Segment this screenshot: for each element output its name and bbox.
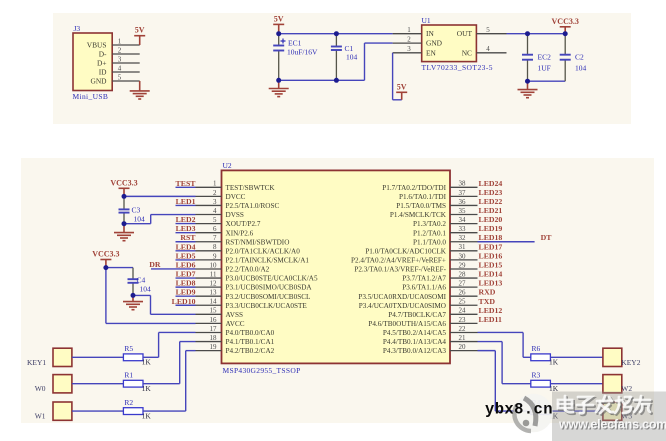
svg-text:P2.4/TA0.2/A4/VREF+/VeREF+: P2.4/TA0.2/A4/VREF+/VeREF+ <box>351 256 446 264</box>
svg-text:MSP430G2955_TSSOP: MSP430G2955_TSSOP <box>223 366 301 375</box>
resistor R3 1K <box>531 370 559 393</box>
svg-text:4: 4 <box>213 207 217 215</box>
svg-text:7: 7 <box>213 234 217 242</box>
junction dots C4 <box>103 265 135 298</box>
svg-text:104: 104 <box>346 53 358 62</box>
wire R4 to W3 <box>550 410 603 412</box>
watermark text shao <box>615 397 633 415</box>
svg-text:DT: DT <box>541 233 553 242</box>
svg-text:RST/NMI/SBWTDIO: RST/NMI/SBWTDIO <box>226 238 290 246</box>
svg-text:C3: C3 <box>132 206 141 215</box>
capacitor EC1 10uF/16V <box>273 34 318 81</box>
junction dots input rails <box>276 31 339 83</box>
svg-text:GND: GND <box>90 77 107 86</box>
svg-text:C4: C4 <box>137 276 146 285</box>
wire U2 pin16 AVCC to VCC3.3 <box>106 268 196 324</box>
svg-text:P1.4/SMCLK/TCK: P1.4/SMCLK/TCK <box>390 211 447 219</box>
svg-text:TXD: TXD <box>479 297 496 306</box>
svg-text:4: 4 <box>486 45 490 53</box>
svg-text:R2: R2 <box>124 398 133 407</box>
svg-text:LED7: LED7 <box>176 270 196 279</box>
net label LED19 <box>479 224 503 233</box>
watermark text zi <box>577 397 595 415</box>
svg-text:33: 33 <box>459 225 467 233</box>
watermark www.elecfans.com <box>558 418 666 433</box>
svg-text:5V: 5V <box>135 26 145 35</box>
U2 pin stubs and numbers <box>196 180 478 351</box>
svg-text:1K: 1K <box>142 384 152 393</box>
svg-text:LED4: LED4 <box>176 242 196 251</box>
svg-text:OUT: OUT <box>457 29 473 38</box>
pad W1 <box>35 402 72 421</box>
ground (C3) <box>114 224 134 241</box>
svg-text:2: 2 <box>118 46 122 54</box>
net label LED3 <box>176 224 196 233</box>
net label LED23 <box>479 188 503 197</box>
svg-text:TEST: TEST <box>176 179 197 188</box>
svg-text:104: 104 <box>134 215 146 224</box>
wire R1 to U2 pin18 <box>143 342 196 384</box>
svg-text:35: 35 <box>459 207 467 215</box>
svg-text:RST: RST <box>180 233 196 242</box>
svg-text:D-: D- <box>99 50 107 59</box>
svg-text:9: 9 <box>213 252 217 260</box>
net label LED20 <box>479 215 503 224</box>
U1 pin stubs <box>393 26 507 53</box>
svg-text:31: 31 <box>459 243 467 251</box>
net label LED4 <box>176 242 196 251</box>
connector J3 Mini_USB <box>73 24 113 101</box>
net label LED17 <box>479 242 503 251</box>
svg-text:10uF/16V: 10uF/16V <box>287 48 318 57</box>
svg-text:4: 4 <box>118 64 122 72</box>
svg-text:AVSS: AVSS <box>226 311 243 319</box>
net label LED5 <box>176 251 196 260</box>
svg-text:34: 34 <box>459 216 467 224</box>
svg-text:EN: EN <box>426 48 437 57</box>
svg-text:C2: C2 <box>575 53 584 62</box>
svg-text:LED21: LED21 <box>479 206 503 215</box>
svg-text:LED10: LED10 <box>172 297 196 306</box>
svg-text:P4.3/TB0.0/A12/CA3: P4.3/TB0.0/A12/CA3 <box>383 347 447 355</box>
svg-text:5V: 5V <box>274 14 284 23</box>
net label LED12 <box>479 306 503 315</box>
net label RST <box>180 233 196 242</box>
svg-text:XIN/P2.6: XIN/P2.6 <box>226 229 254 237</box>
svg-text:6: 6 <box>213 225 217 233</box>
svg-text:3: 3 <box>213 198 217 206</box>
svg-text:NC: NC <box>462 48 472 57</box>
svg-text:27: 27 <box>459 280 467 288</box>
wire R3 to W2 <box>550 383 603 385</box>
wire R6 to KEY2 <box>550 356 603 358</box>
svg-text:P2.1/TAINCLK/SMCLK/A1: P2.1/TAINCLK/SMCLK/A1 <box>226 256 310 264</box>
svg-text:P4.4/TB0.1/A13/CA4: P4.4/TB0.1/A13/CA4 <box>383 338 447 346</box>
svg-text:DVCC: DVCC <box>226 193 246 201</box>
svg-text:104: 104 <box>140 285 152 294</box>
svg-text:KEY1: KEY1 <box>27 358 46 367</box>
watermark text dian <box>558 396 575 414</box>
svg-text:R3: R3 <box>532 370 541 379</box>
svg-text:LED20: LED20 <box>479 215 503 224</box>
svg-text:10: 10 <box>210 261 218 269</box>
svg-text:1K: 1K <box>142 358 152 367</box>
svg-text:P1.7/TA0.2/TDO/TDI: P1.7/TA0.2/TDO/TDI <box>382 184 446 192</box>
svg-text:ybx8.cn: ybx8.cn <box>485 401 553 419</box>
svg-text:24: 24 <box>459 307 467 315</box>
svg-text:21: 21 <box>459 334 467 342</box>
pad KEY2 <box>603 348 641 367</box>
svg-text:13: 13 <box>210 289 218 297</box>
svg-text:5: 5 <box>213 216 217 224</box>
svg-text:1K: 1K <box>549 358 559 367</box>
svg-text:VBUS: VBUS <box>87 41 107 50</box>
resistor R2 1K <box>123 398 151 421</box>
svg-text:D+: D+ <box>97 59 107 68</box>
net label LED11 <box>479 315 502 324</box>
svg-text:LED24: LED24 <box>479 179 503 188</box>
power VCC3.3 (AVCC) <box>92 250 119 268</box>
net label LED2 <box>176 215 196 224</box>
svg-text:P2.2/TA0.0/A2: P2.2/TA0.0/A2 <box>226 266 270 274</box>
wire U1 GND to ground rail <box>365 43 393 80</box>
svg-text:VCC3.3: VCC3.3 <box>552 17 579 26</box>
U2 pin names <box>226 184 447 355</box>
svg-text:IN: IN <box>426 29 434 38</box>
svg-text:P3.5/UCA0RXD/UCA0SOMI: P3.5/UCA0RXD/UCA0SOMI <box>358 293 446 301</box>
wire W0 to R1 <box>72 383 124 385</box>
svg-text:U2: U2 <box>223 161 232 170</box>
svg-text:5V: 5V <box>397 82 407 91</box>
svg-text:LED15: LED15 <box>479 260 503 269</box>
svg-text:P2.5/TA1.0/ROSC: P2.5/TA1.0/ROSC <box>226 202 280 210</box>
wire U2 pin15 AVSS to ground <box>133 295 196 314</box>
power VCC3.3 output <box>552 17 579 34</box>
svg-text:LED2: LED2 <box>176 215 196 224</box>
svg-text:5: 5 <box>118 73 122 81</box>
net label LED8 <box>176 279 196 288</box>
svg-text:P1.5/TA0.0/TMS: P1.5/TA0.0/TMS <box>396 202 446 210</box>
resistor R6 1K <box>531 344 559 367</box>
svg-text:12: 12 <box>210 280 218 288</box>
wire R2 to U2 pin19 <box>143 351 196 411</box>
svg-text:P3.6/TA1.1/A6: P3.6/TA1.1/A6 <box>402 284 446 292</box>
wire R5 to U2 pin17 <box>143 332 196 357</box>
power 5V at J3 pin1 <box>134 26 145 45</box>
svg-text:2: 2 <box>213 189 217 197</box>
svg-text:RXD: RXD <box>479 288 496 297</box>
svg-text:LED11: LED11 <box>479 315 502 324</box>
wire VCC3.3 to U2 pin2 DVCC <box>124 195 196 197</box>
svg-text:20: 20 <box>459 343 467 351</box>
svg-text:5: 5 <box>486 26 490 34</box>
pad KEY1 <box>27 348 72 367</box>
capacitor C2 104 <box>560 34 587 81</box>
svg-text:P3.0/UCB0STE/UCA0CLK/A5: P3.0/UCB0STE/UCA0CLK/A5 <box>226 275 318 283</box>
capacitor EC2 1UF <box>522 34 551 81</box>
svg-text:36: 36 <box>459 198 467 206</box>
net label LED15 <box>479 260 503 269</box>
wire U2 pin22 to R6 <box>478 332 531 357</box>
svg-text:EC1: EC1 <box>288 39 302 48</box>
svg-text:1UF: 1UF <box>538 64 551 73</box>
svg-text:P4.5/TB0.2/A14/CA5: P4.5/TB0.2/A14/CA5 <box>383 329 447 337</box>
ground (output rail) <box>518 81 538 98</box>
svg-text:GND: GND <box>426 39 443 48</box>
net label LED13 <box>479 279 503 288</box>
svg-text:P1.2/TA0.1: P1.2/TA0.1 <box>413 229 446 237</box>
power 5V input rail <box>273 14 284 33</box>
capacitor C3 104 <box>119 196 146 223</box>
capacitor C1 104 <box>331 34 358 81</box>
wire U1 OUT to VCC3.3 <box>507 33 566 35</box>
svg-text:R6: R6 <box>532 344 541 353</box>
capacitor C4 104 <box>106 268 151 296</box>
svg-text:TEST/SBWTCK: TEST/SBWTCK <box>226 184 276 192</box>
pad W0 <box>35 375 72 394</box>
svg-text:14: 14 <box>210 298 218 306</box>
resistor R1 1K <box>123 370 151 393</box>
svg-text:8: 8 <box>213 243 217 251</box>
svg-text:DR: DR <box>149 260 161 269</box>
svg-text:LED3: LED3 <box>176 224 196 233</box>
net label RXD <box>479 288 496 297</box>
svg-text:LED13: LED13 <box>479 279 503 288</box>
watermark text fa <box>596 396 615 415</box>
svg-text:17: 17 <box>210 325 218 333</box>
svg-text:LED19: LED19 <box>479 224 503 233</box>
svg-text:LED5: LED5 <box>176 251 196 260</box>
svg-text:P3.4/UCA0TXD/UCA0SIMO: P3.4/UCA0TXD/UCA0SIMO <box>359 302 446 310</box>
watermark text you <box>634 396 652 414</box>
wire ground rail (input) <box>279 79 365 81</box>
svg-text:P3.1/UCB0SIMO/UCB0SDA: P3.1/UCB0SIMO/UCB0SDA <box>226 284 313 292</box>
svg-text:18: 18 <box>210 334 218 342</box>
svg-text:11: 11 <box>210 270 217 278</box>
svg-text:P4.0/TB0.0/CA0: P4.0/TB0.0/CA0 <box>226 329 275 337</box>
svg-text:LED23: LED23 <box>479 188 503 197</box>
svg-text:2: 2 <box>407 36 411 44</box>
svg-text:P4.6/TB0OUTH/A15/CA6: P4.6/TB0OUTH/A15/CA6 <box>368 320 446 328</box>
watermark ybx8.cn <box>485 401 553 419</box>
net label LED10 <box>172 297 196 306</box>
svg-text:W0: W0 <box>35 384 46 393</box>
svg-text:P4.7/TB0CLK/CA7: P4.7/TB0CLK/CA7 <box>388 311 446 319</box>
svg-text:U1: U1 <box>422 16 431 25</box>
svg-text:LED22: LED22 <box>479 197 503 206</box>
ground (C4) <box>123 295 143 309</box>
svg-text:104: 104 <box>575 64 587 73</box>
net label LED9 <box>176 288 196 297</box>
svg-text:P1.0/TA0CLK/ADC10CLK: P1.0/TA0CLK/ADC10CLK <box>365 247 446 255</box>
svg-text:28: 28 <box>459 270 467 278</box>
svg-text:3: 3 <box>118 55 122 63</box>
svg-text:1: 1 <box>407 26 411 34</box>
svg-text:29: 29 <box>459 261 467 269</box>
svg-text:P3.2/UCB0SOMI/UCB0SCL: P3.2/UCB0SOMI/UCB0SCL <box>226 293 311 301</box>
left net label wires <box>151 187 196 305</box>
net label LED18 <box>479 233 503 242</box>
svg-text:1: 1 <box>118 37 122 45</box>
svg-text:16: 16 <box>210 316 218 324</box>
svg-text:LED16: LED16 <box>479 251 503 260</box>
net label LED14 <box>479 270 503 279</box>
svg-text:P1.3/TA0.2: P1.3/TA0.2 <box>413 220 446 228</box>
net label LED22 <box>479 197 503 206</box>
svg-text:www.elecfans.com: www.elecfans.com <box>558 418 666 432</box>
svg-text:23: 23 <box>459 316 467 324</box>
svg-text:19: 19 <box>210 343 218 351</box>
svg-text:LED14: LED14 <box>479 270 503 279</box>
watermark logo circle <box>514 394 553 433</box>
net label LED21 <box>479 206 503 215</box>
svg-text:22: 22 <box>459 325 467 333</box>
svg-text:KEY2: KEY2 <box>621 358 640 367</box>
svg-text:LED1: LED1 <box>176 197 196 206</box>
MCU U2 MSP430G2955 <box>222 161 451 375</box>
net label LED7 <box>176 270 196 279</box>
svg-text:3: 3 <box>407 45 411 53</box>
regulator U1 TLV70233 <box>422 16 494 72</box>
resistor R5 1K <box>123 344 151 367</box>
svg-text:P4.2/TB0.2/CA2: P4.2/TB0.2/CA2 <box>226 347 275 355</box>
svg-text:VCC3.3: VCC3.3 <box>92 250 119 259</box>
net label LED24 <box>479 179 503 188</box>
svg-text:38: 38 <box>459 180 467 188</box>
svg-text:P2.0/TA1CLK/ACLK/A0: P2.0/TA1CLK/ACLK/A0 <box>226 247 301 255</box>
net label LED1 <box>176 197 196 206</box>
svg-text:P1.6/TA0.1/TDI: P1.6/TA0.1/TDI <box>399 193 447 201</box>
svg-text:DVSS: DVSS <box>226 211 244 219</box>
svg-text:25: 25 <box>459 298 467 306</box>
net label TEST <box>176 179 197 188</box>
svg-text:32: 32 <box>459 234 467 242</box>
svg-text:Mini_USB: Mini_USB <box>73 92 109 101</box>
svg-text:R5: R5 <box>124 344 133 353</box>
svg-text:1: 1 <box>213 180 217 188</box>
watermark gray panel <box>552 392 666 441</box>
svg-text:TLV70233_SOT23-5: TLV70233_SOT23-5 <box>422 63 494 72</box>
svg-text:LED8: LED8 <box>176 279 196 288</box>
wire and net label DT (pin 32) <box>478 233 553 242</box>
svg-text:P2.3/TA0.1/A3/VREF-/VeREF-: P2.3/TA0.1/A3/VREF-/VeREF- <box>354 266 446 274</box>
net label TXD <box>479 297 496 306</box>
svg-text:26: 26 <box>459 289 467 297</box>
wire KEY1 to R5 <box>72 356 124 358</box>
svg-text:37: 37 <box>459 189 467 197</box>
wire U2 pin4 DVSS to ground <box>124 215 196 224</box>
junction dots output rails <box>525 31 568 83</box>
svg-text:P4.1/TB0.1/CA1: P4.1/TB0.1/CA1 <box>226 338 275 346</box>
svg-text:LED6: LED6 <box>176 260 196 269</box>
svg-text:LED17: LED17 <box>479 242 503 251</box>
pad W2 <box>603 375 632 394</box>
svg-text:ID: ID <box>99 68 107 77</box>
net label LED16 <box>479 251 503 260</box>
net label LED6 <box>176 260 196 269</box>
resistor R4 1K <box>531 398 559 421</box>
J3 pin wires 1-5 <box>112 37 140 81</box>
wire 5V rail to U1 IN <box>279 33 393 35</box>
wire U1 EN down to 5V <box>393 53 402 100</box>
svg-text:VCC3.3: VCC3.3 <box>110 178 137 187</box>
power 5V at U1 EN <box>396 82 407 100</box>
wire U2 pin20 to R4 <box>478 351 531 411</box>
wire ground rail (output) <box>528 80 566 82</box>
svg-text:EC2: EC2 <box>538 53 552 62</box>
svg-text:W1: W1 <box>35 412 46 421</box>
svg-text:R1: R1 <box>124 370 133 379</box>
wire W1 to R2 <box>72 410 124 412</box>
svg-text:LED9: LED9 <box>176 288 196 297</box>
junction dots C3 <box>122 194 127 226</box>
svg-text:P1.1/TA0.0: P1.1/TA0.0 <box>413 238 446 246</box>
svg-text:XOUT/P2.7: XOUT/P2.7 <box>226 220 261 228</box>
ground at J3 pin5 <box>130 81 150 99</box>
wire U2 pin21 to R3 <box>478 342 531 384</box>
power VCC3.3 (DVCC) <box>110 178 137 196</box>
pad W3 <box>603 402 632 421</box>
svg-text:LED12: LED12 <box>479 306 503 315</box>
svg-text:J3: J3 <box>74 24 81 33</box>
svg-text:AVCC: AVCC <box>226 320 245 328</box>
svg-text:15: 15 <box>210 307 218 315</box>
svg-text:30: 30 <box>459 252 467 260</box>
svg-text:LED18: LED18 <box>479 233 503 242</box>
ground (input rail) <box>269 80 289 96</box>
svg-text:P3.3/UCB0CLK/UCA0STE: P3.3/UCB0CLK/UCA0STE <box>226 302 308 310</box>
svg-text:1K: 1K <box>142 411 152 420</box>
net label DR <box>149 260 161 269</box>
svg-text:P3.7/TA1.2/A7: P3.7/TA1.2/A7 <box>402 275 446 283</box>
